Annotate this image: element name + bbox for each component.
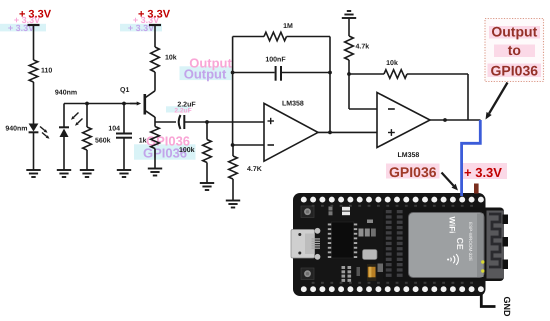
svg-text:ESP-WROOM-32E: ESP-WROOM-32E <box>468 222 473 261</box>
svg-text:to: to <box>508 42 521 58</box>
svg-text:+ 3.3V: + 3.3V <box>19 9 52 21</box>
svg-text:10k: 10k <box>386 59 398 67</box>
svg-text:4.7k: 4.7k <box>356 43 370 51</box>
svg-text:1M: 1M <box>283 23 293 30</box>
svg-text:WiFi: WiFi <box>448 217 457 234</box>
svg-text:940nm: 940nm <box>55 90 77 97</box>
svg-text:+ 3.3V: + 3.3V <box>138 9 171 21</box>
svg-text:104: 104 <box>108 126 120 133</box>
svg-text:LM358: LM358 <box>398 152 420 159</box>
svg-text:GPI036: GPI036 <box>389 164 437 180</box>
svg-text:1k: 1k <box>139 137 147 145</box>
svg-text:+ 3.3V: + 3.3V <box>464 165 502 180</box>
svg-text:2.2uF: 2.2uF <box>174 108 191 115</box>
svg-text:GPI036: GPI036 <box>491 62 539 78</box>
svg-text:4.7K: 4.7K <box>247 166 262 173</box>
svg-text:100nF: 100nF <box>265 57 286 64</box>
svg-text:560k: 560k <box>95 137 111 145</box>
svg-text:GND: GND <box>502 297 512 318</box>
svg-text:Output: Output <box>491 23 537 39</box>
svg-text:CE: CE <box>455 238 465 250</box>
svg-text:2.2uF: 2.2uF <box>177 102 196 109</box>
svg-text:10k: 10k <box>165 54 177 62</box>
svg-text:Q1: Q1 <box>120 87 129 94</box>
svg-text:110: 110 <box>41 68 52 75</box>
svg-text:940nm: 940nm <box>5 126 27 133</box>
svg-text:100k: 100k <box>179 146 195 154</box>
svg-text:LM358: LM358 <box>282 101 304 108</box>
svg-text:Output: Output <box>184 67 227 82</box>
